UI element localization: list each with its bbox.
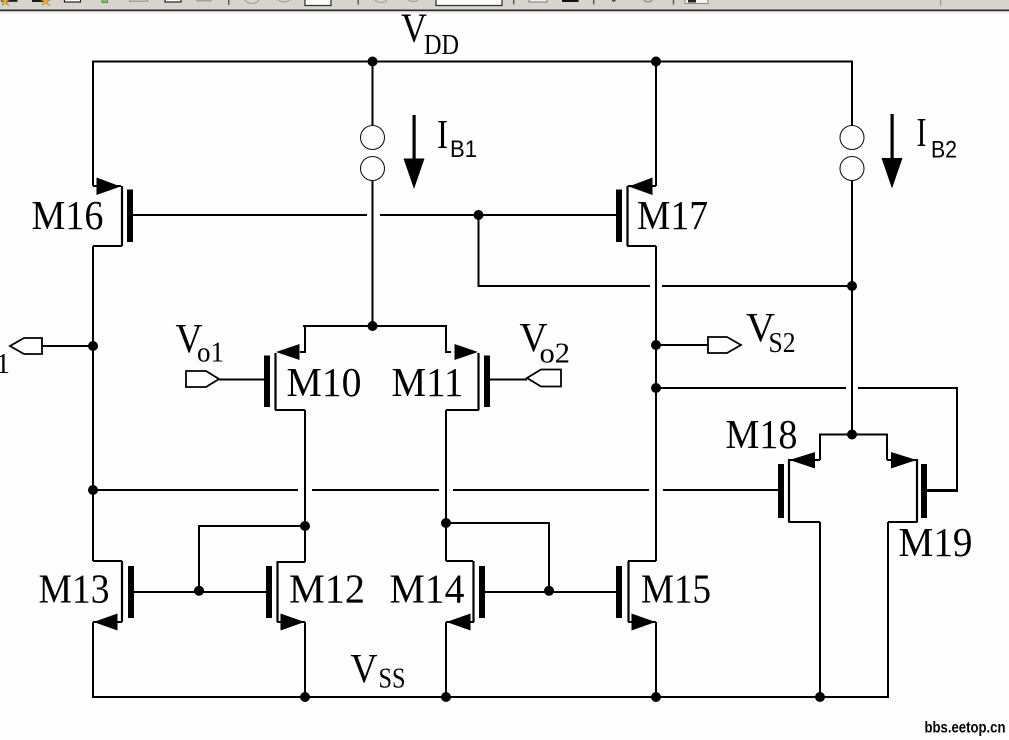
wire M13 source to VSS: [92, 622, 94, 698]
svg-text:V: V: [351, 645, 378, 691]
VDD rail: [92, 61, 853, 63]
transistor M18: [726, 411, 821, 523]
wire M14-M15 gate line: [485, 591, 616, 593]
wire IB2 top: [851, 62, 853, 127]
svg-text:M15: M15: [641, 566, 711, 612]
pin Vo1: [176, 315, 225, 387]
node M14 drain: [441, 518, 451, 528]
label VDD: [401, 4, 459, 61]
wire M12-M13 gate line: [134, 591, 266, 593]
svg-text:S2: S2: [769, 327, 796, 359]
transistor M17: [616, 178, 708, 247]
wire IB1 top: [372, 62, 374, 127]
svg-text:M10: M10: [287, 359, 362, 405]
wire M14 source to VSS: [445, 622, 447, 698]
node M18/M19 source join: [847, 430, 857, 440]
wire pin VS1 stub: [42, 345, 93, 347]
svg-text:M13: M13: [39, 566, 110, 612]
pin VS2: [708, 304, 796, 359]
wire M18/M19 source join: [820, 435, 887, 461]
node x656/y388: [651, 383, 661, 393]
wire left rail mid: [92, 246, 94, 561]
svg-text:bbs.eetop.cn: bbs.eetop.cn: [925, 720, 1006, 737]
svg-text:B1: B1: [450, 136, 477, 163]
node M12/M13 gates: [194, 586, 204, 596]
wire y286 gate to IB2 (broken at x656 crossing): [478, 285, 852, 287]
wire M11 source to M14 drain: [445, 410, 447, 561]
wire VS2 node to M19 gate (broken at IB2 crossing): [656, 387, 958, 389]
wire M18 gate line y490 (broken at crossings): [93, 489, 778, 491]
wire gate node riser x478: [478, 215, 480, 287]
VSS rail: [92, 696, 889, 698]
pin VS1 (cut off at left edge): [0, 338, 42, 380]
wire M12 source to VSS: [304, 622, 306, 698]
wire M17 source column: [655, 246, 657, 561]
svg-text:M16: M16: [32, 192, 104, 238]
transistor M16: [32, 178, 134, 247]
node M14/M15 gates: [544, 586, 554, 596]
svg-text:M11: M11: [392, 359, 464, 405]
wire M14 gate loop: [446, 523, 549, 592]
wire M19 gate riser: [927, 387, 957, 491]
node diff-pair tail: [368, 321, 378, 331]
svg-text:M17: M17: [637, 192, 708, 238]
transistor M10: [219, 344, 362, 410]
node at VDD/M17: [651, 57, 661, 67]
current source IB2: [840, 109, 957, 189]
transistor M15: [616, 561, 711, 631]
wire M15 source to VSS: [655, 622, 657, 698]
wire M11 drain riser: [446, 325, 451, 352]
node at VDD/IB1: [368, 57, 378, 67]
wire M10 source to M12 drain: [304, 410, 306, 562]
current source IB1: [361, 111, 478, 189]
svg-text:SS: SS: [379, 663, 406, 695]
svg-text:M19: M19: [899, 519, 973, 565]
transistor M12: [199, 561, 365, 631]
wire diff-pair drain join y326: [303, 325, 446, 327]
svg-text:1: 1: [0, 348, 10, 380]
wire left rail upper: [92, 61, 94, 187]
transistor M19: [887, 452, 973, 565]
wire IB2 bottom to M18/M19 sources: [851, 180, 853, 435]
svg-text:B2: B2: [931, 137, 957, 164]
wire pin VS2 stub: [656, 344, 708, 346]
transistor M11: [392, 344, 528, 410]
node VSS/M12: [300, 692, 310, 702]
node IB2/y286: [847, 281, 857, 291]
wire IB1 bottom: [372, 180, 374, 326]
wire M19 source to VSS: [887, 522, 889, 698]
wire M12 gate loop: [199, 526, 305, 592]
wire M10 drain riser: [300, 325, 305, 352]
node VSS/M14: [441, 692, 451, 702]
node VS1 pin junction: [88, 341, 98, 351]
svg-text:M18: M18: [726, 411, 798, 457]
svg-text:o1: o1: [197, 337, 224, 369]
label VSS: [351, 645, 406, 695]
node M12 drain: [300, 521, 310, 531]
node VS2 junction: [651, 340, 661, 350]
svg-text:I: I: [917, 109, 927, 155]
svg-text:I: I: [437, 111, 448, 157]
pin Vo2: [520, 314, 571, 387]
svg-text:DD: DD: [424, 29, 459, 61]
wire gate line M16-M17 (broken at IB1 crossing): [133, 214, 616, 216]
transistor M14: [390, 561, 486, 631]
transistor M13: [39, 561, 135, 631]
wire M17 drain: [655, 61, 657, 187]
node VSS/M18: [815, 692, 825, 702]
svg-text:M12: M12: [289, 566, 365, 612]
svg-text:M14: M14: [390, 566, 465, 612]
node left rail y490: [88, 485, 98, 495]
svg-text:o2: o2: [540, 338, 571, 370]
node VSS/M15: [651, 692, 661, 702]
node gate line x478: [474, 210, 484, 220]
wire M18 drain to VSS: [819, 522, 821, 698]
